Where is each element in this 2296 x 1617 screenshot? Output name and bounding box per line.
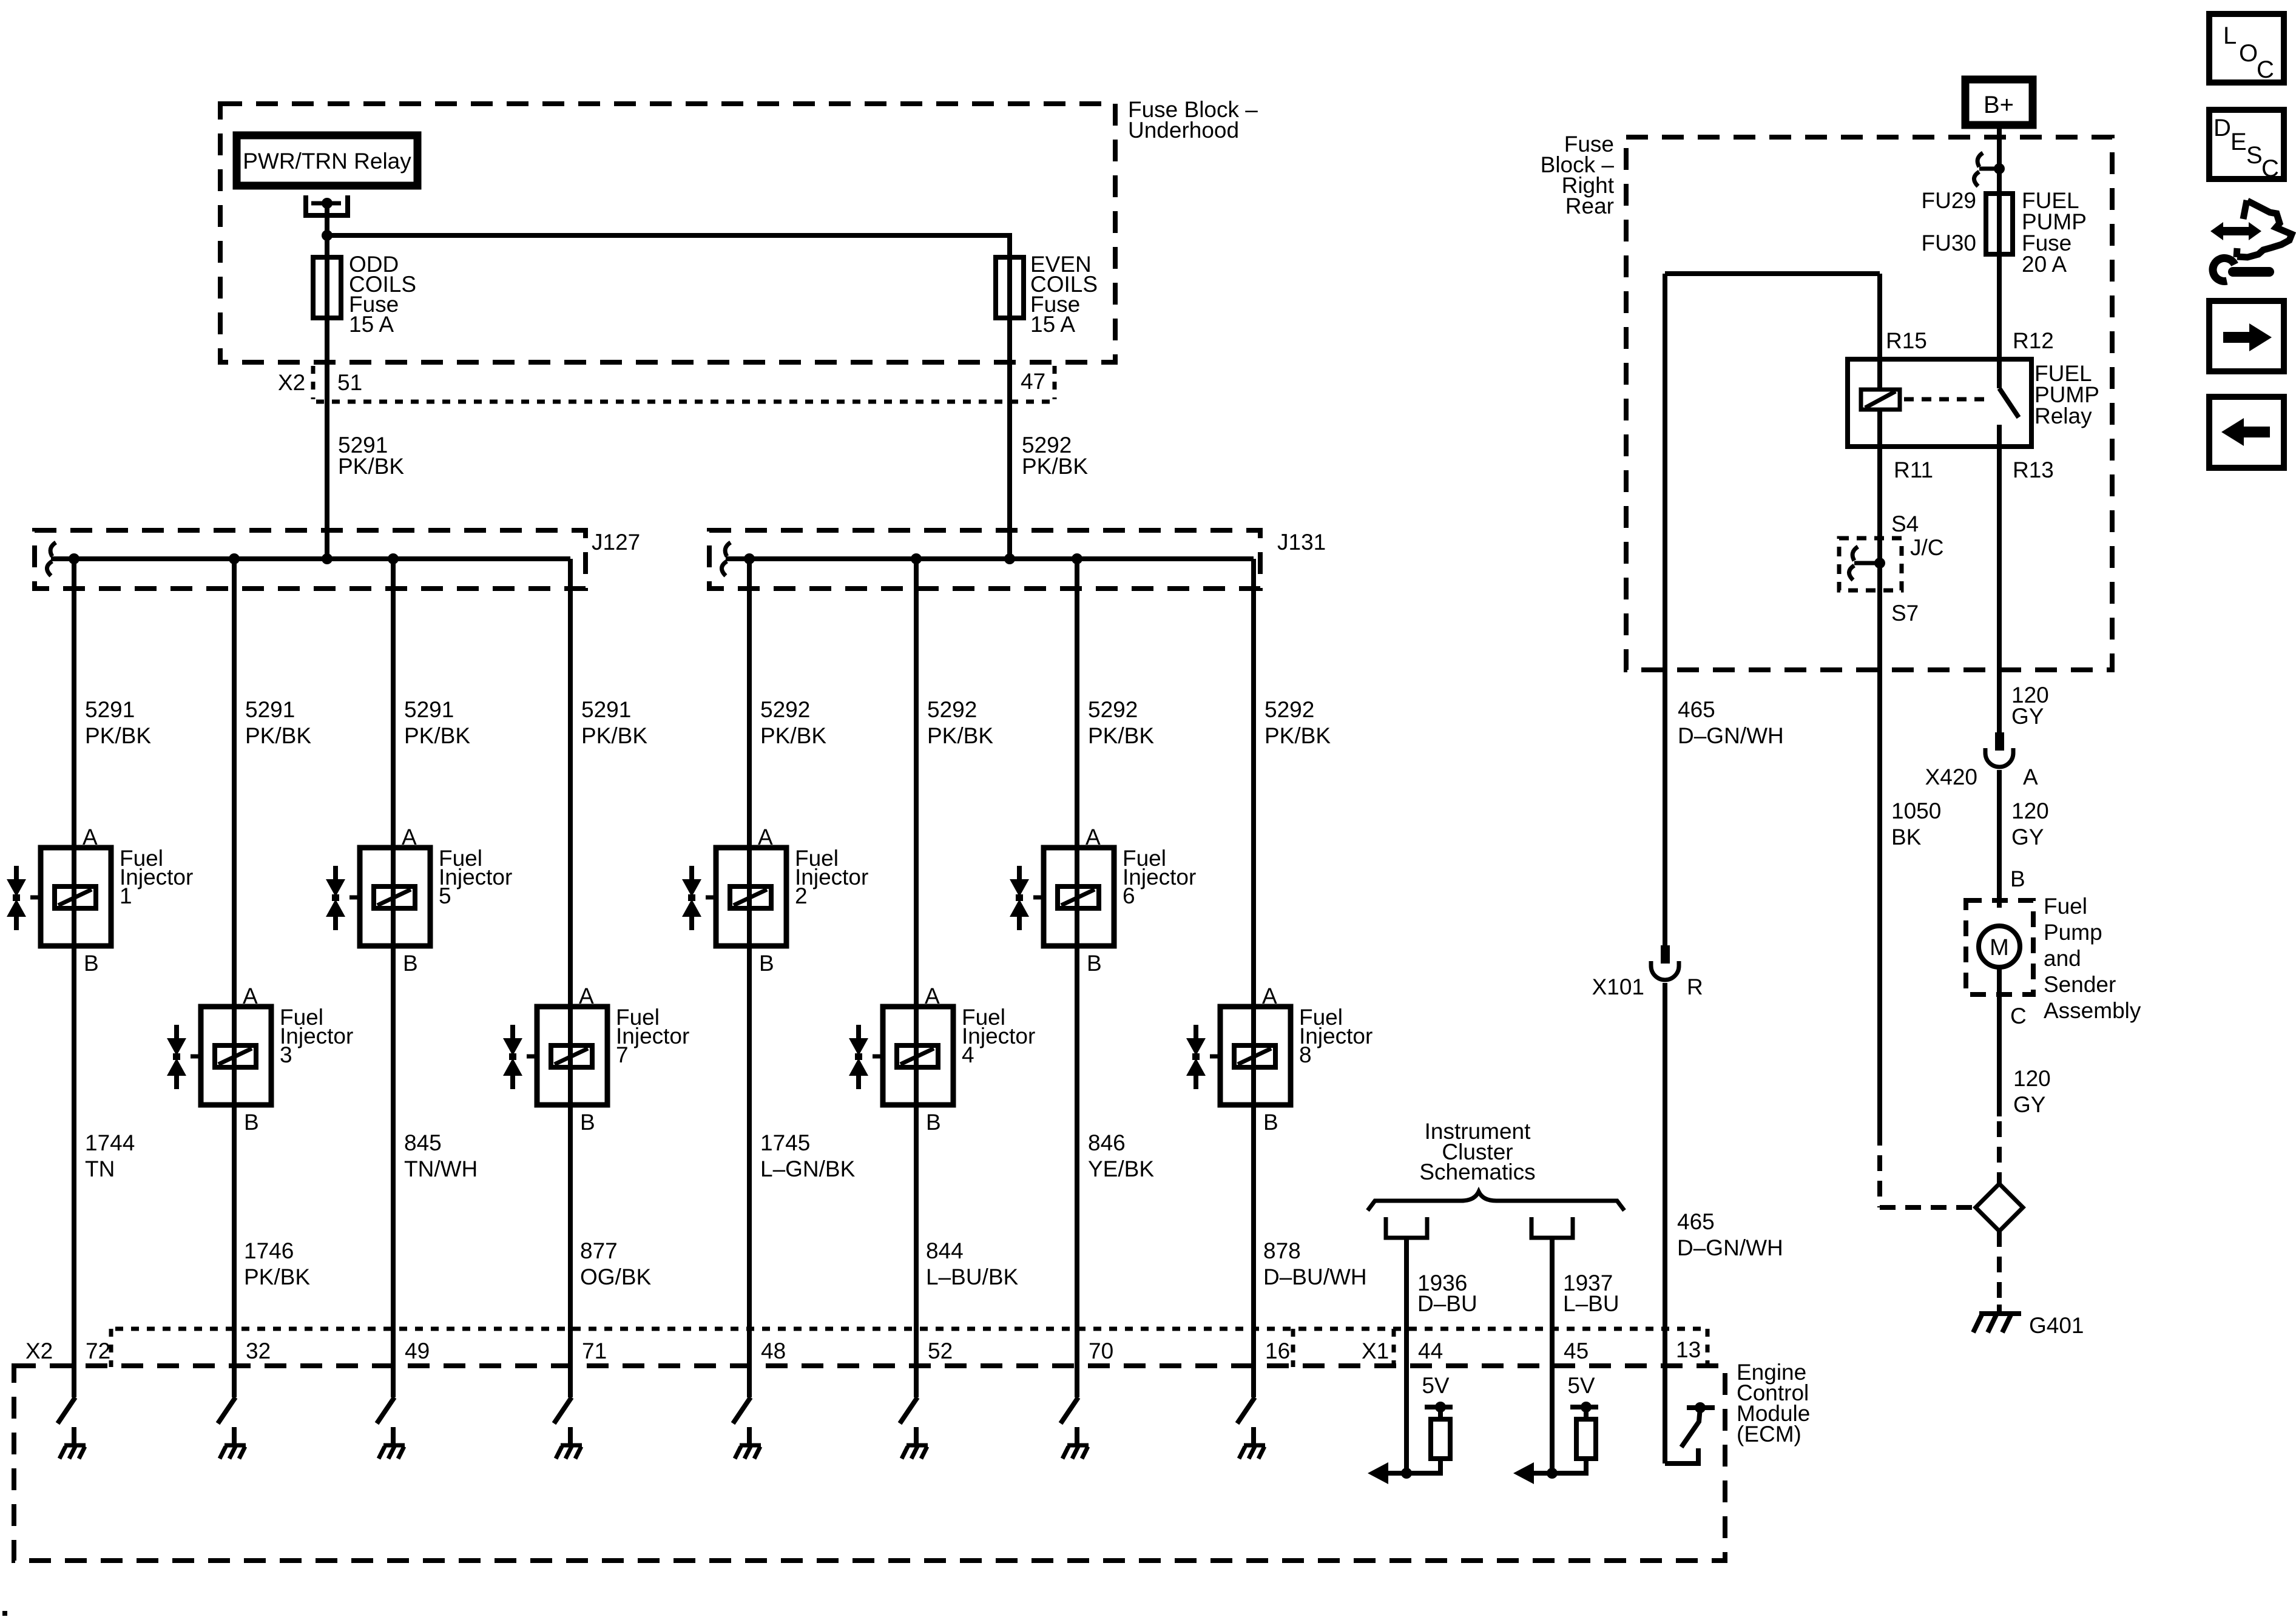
svg-text:(ECM): (ECM) (1737, 1422, 1801, 1447)
svg-text:J/C: J/C (1910, 535, 1944, 560)
svg-text:7: 7 (616, 1042, 629, 1067)
page corner dot (2, 1611, 7, 1616)
svg-text:GY: GY (2011, 825, 2044, 849)
svg-text:X2: X2 (278, 370, 305, 395)
fuel injector 6 (1010, 848, 1114, 946)
driver switch and ground at pin x=940 (554, 1397, 572, 1423)
driver switch and ground at pin x=1235 (733, 1397, 751, 1423)
svg-text:B: B (1087, 951, 1102, 976)
svg-text:B: B (759, 951, 774, 976)
svg-text:O: O (2239, 40, 2258, 67)
fuse block right rear (dashed box) (1626, 137, 2112, 670)
wire down to even coils fuse (1007, 233, 1012, 257)
svg-text:and: and (2044, 946, 2081, 971)
svg-text:A: A (925, 984, 940, 1008)
dashed wire to ground (1997, 1231, 2002, 1305)
fuse block underhood (dashed box) (220, 104, 1115, 362)
FUEL PUMP relay box (1848, 359, 2031, 447)
svg-text:D: D (2213, 115, 2231, 141)
fuse ODD COILS 15A (313, 257, 341, 318)
svg-text:PK/BK: PK/BK (581, 723, 647, 748)
svg-text:5V: 5V (1567, 1373, 1595, 1398)
junction node dot (322, 230, 333, 241)
svg-text:J131: J131 (1277, 530, 1326, 555)
svg-text:D–GN/WH: D–GN/WH (1677, 1235, 1783, 1260)
svg-text:5291: 5291 (85, 697, 135, 722)
svg-text:32: 32 (246, 1338, 271, 1363)
svg-text:R11: R11 (1894, 457, 1933, 482)
svg-text:S7: S7 (1891, 601, 1919, 626)
svg-text:L–GN/BK: L–GN/BK (760, 1156, 856, 1181)
svg-text:C: C (2261, 155, 2279, 182)
svg-text:R: R (1687, 974, 1703, 999)
svg-text:PK/BK: PK/BK (404, 723, 470, 748)
svg-text:20 A: 20 A (2022, 252, 2067, 277)
svg-text:A: A (402, 825, 417, 849)
svg-text:C: C (2257, 56, 2274, 83)
svg-text:8: 8 (1299, 1042, 1312, 1067)
svg-text:71: 71 (582, 1338, 607, 1363)
svg-text:OG/BK: OG/BK (580, 1264, 652, 1289)
svg-text:2: 2 (795, 883, 808, 908)
fuel injector 8 (1186, 1007, 1291, 1105)
B+ terminal box (1965, 79, 2033, 125)
svg-text:5292: 5292 (1264, 697, 1314, 722)
svg-text:49: 49 (405, 1338, 430, 1363)
driver switch and ground at pin x=648 (377, 1397, 394, 1423)
wire coil to R11 (1877, 410, 1882, 1130)
svg-text:A: A (579, 984, 594, 1008)
svg-text:PK/BK: PK/BK (1088, 723, 1154, 748)
svg-text:15 A: 15 A (1030, 312, 1075, 337)
svg-text:15 A: 15 A (349, 312, 394, 337)
svg-text:B: B (2010, 866, 2025, 891)
svg-text:GY: GY (2011, 704, 2044, 729)
svg-text:A: A (1262, 984, 1277, 1008)
icon arrow left box (2209, 397, 2284, 468)
svg-text:Schematics: Schematics (1419, 1160, 1535, 1184)
svg-text:Assembly: Assembly (2044, 998, 2141, 1023)
svg-text:1050: 1050 (1891, 798, 1941, 823)
svg-text:S4: S4 (1891, 511, 1919, 536)
svg-text:G401: G401 (2029, 1313, 2084, 1338)
svg-text:J127: J127 (592, 530, 640, 555)
wire 529x PK/BK column at x=122 (72, 559, 76, 1397)
svg-text:PK/BK: PK/BK (1264, 723, 1331, 748)
ground G401 (1997, 1305, 2002, 1313)
wire 1937 L–BU (1550, 1238, 1555, 1473)
svg-text:5291: 5291 (404, 697, 454, 722)
relay coil (1861, 390, 1900, 410)
svg-text:Fuel: Fuel (2044, 894, 2087, 919)
svg-text:A: A (83, 825, 98, 849)
svg-text:5291: 5291 (581, 697, 631, 722)
wire 529x PK/BK column at x=2066 (1251, 559, 1256, 1397)
wire 120 GY (X420 to pump B) (1997, 770, 2002, 908)
svg-text:Relay: Relay (2034, 403, 2092, 428)
wire inside pump box (1997, 967, 2002, 994)
splice diamond (1976, 1184, 2023, 1231)
svg-text:B: B (84, 951, 99, 976)
fuel pump and sender assembly (dashed box) (1966, 900, 2033, 994)
svg-text:X420: X420 (1925, 765, 1977, 789)
node dots J127 (69, 553, 79, 564)
svg-text:X2: X2 (25, 1338, 53, 1363)
svg-text:S: S (2246, 142, 2263, 169)
icon LOC box (2209, 14, 2284, 83)
svg-text:Rear: Rear (1565, 194, 1614, 218)
wire R15 down into relay (1877, 274, 1882, 390)
svg-text:PK/BK: PK/BK (85, 723, 151, 748)
svg-text:B+: B+ (1984, 92, 2014, 118)
driver switch and ground at pin x=1775 (1061, 1397, 1078, 1423)
wire 529x PK/BK column at x=1235 (747, 559, 752, 1397)
svg-text:L: L (2223, 22, 2237, 49)
junction block J127 (35, 530, 586, 589)
svg-text:R12: R12 (2013, 328, 2054, 353)
wire 1936 D–BU (1404, 1238, 1409, 1473)
svg-text:1746: 1746 (244, 1238, 294, 1263)
svg-text:Underhood: Underhood (1128, 118, 1239, 143)
svg-text:D–GN/WH: D–GN/WH (1678, 723, 1784, 748)
5V pullup at pin x=2318 (1425, 1405, 1453, 1409)
svg-text:L–BU: L–BU (1563, 1291, 1619, 1316)
wire 120 GY below pump (1997, 994, 2002, 1116)
svg-text:A: A (1086, 825, 1101, 849)
svg-text:44: 44 (1418, 1338, 1443, 1363)
wire 465 horizontal from relay R15 (1665, 271, 1880, 276)
driver switch and ground at pin x=2066 (1237, 1397, 1255, 1423)
svg-text:48: 48 (761, 1338, 786, 1363)
svg-text:120: 120 (2011, 798, 2049, 823)
svg-text:52: 52 (928, 1338, 953, 1363)
svg-text:3: 3 (280, 1042, 292, 1067)
J131 bus wire (726, 556, 1254, 561)
wire 5292 PK/BK (fuse to J131) (1007, 318, 1012, 559)
svg-text:5292: 5292 (760, 697, 810, 722)
svg-text:B: B (926, 1110, 941, 1135)
svg-text:16: 16 (1265, 1338, 1290, 1363)
splice curl in J/C (1849, 547, 1858, 580)
svg-text:877: 877 (580, 1238, 618, 1263)
svg-text:A: A (2023, 765, 2038, 789)
svg-text:FU29: FU29 (1922, 188, 1976, 213)
fuel injector 7 (503, 1007, 607, 1105)
PWR/TRN Relay label box (237, 135, 417, 186)
svg-text:M: M (1990, 935, 2009, 960)
svg-text:D–BU: D–BU (1417, 1291, 1477, 1316)
svg-text:L–BU/BK: L–BU/BK (926, 1264, 1019, 1289)
svg-text:R15: R15 (1886, 328, 1927, 353)
connector band X2/X1 at ECM (115, 1327, 1707, 1331)
wire 5291 PK/BK (fuse to J127) (325, 318, 329, 559)
icon DESC box (2209, 110, 2284, 179)
svg-text:5V: 5V (1422, 1373, 1450, 1398)
svg-text:465: 465 (1677, 1209, 1715, 1234)
svg-text:465: 465 (1678, 697, 1715, 722)
svg-text:70: 70 (1089, 1338, 1113, 1363)
junction block J131 (709, 530, 1260, 589)
wire 465 D-GN/WH to ECM pin 13 (1663, 983, 1667, 1463)
svg-text:PK/BK: PK/BK (338, 454, 404, 479)
fuel injector 4 (849, 1007, 953, 1105)
svg-text:YE/BK: YE/BK (1088, 1156, 1154, 1181)
wire B+ down (1997, 125, 2002, 194)
connector X420 (1995, 732, 2004, 751)
splice curl J131 (721, 542, 731, 576)
driver switch and ground at pin x=122 (58, 1397, 75, 1423)
svg-text:PK/BK: PK/BK (760, 723, 826, 748)
svg-text:Pump: Pump (2044, 920, 2102, 945)
svg-text:PK/BK: PK/BK (244, 1264, 310, 1289)
5V pullup at pin x=2558 (1570, 1405, 1598, 1409)
dashed wire from ECM S7 path (1877, 1130, 1882, 1207)
svg-text:47: 47 (1021, 369, 1045, 394)
svg-text:5292: 5292 (1088, 697, 1138, 722)
fuse FUEL PUMP 20A (FU29/FU30) (1986, 194, 2013, 254)
pin 13 driver switch (1687, 1405, 1715, 1410)
svg-text:A: A (758, 825, 773, 849)
svg-text:X1: X1 (1362, 1338, 1389, 1363)
wire relay to junction (325, 203, 329, 257)
node dots J131 (744, 553, 755, 564)
wire 529x PK/BK column at x=1510 (914, 559, 919, 1397)
J127 bus wire (51, 556, 570, 561)
svg-text:FU30: FU30 (1922, 231, 1976, 255)
engine control module ECM (dashed box) (14, 1366, 1725, 1561)
splice curl at B+ feed (1974, 153, 1983, 186)
svg-text:PK/BK: PK/BK (245, 723, 311, 748)
svg-text:GY: GY (2013, 1092, 2045, 1117)
wire R13 down (1997, 425, 2002, 732)
icon wrench and arrows (2210, 200, 2292, 281)
connector X101 (1661, 945, 1670, 964)
svg-text:B: B (1263, 1110, 1278, 1135)
relay contact symbol (306, 195, 348, 215)
svg-text:C: C (2010, 1004, 2027, 1028)
icon arrow right box (2209, 301, 2284, 371)
svg-text:845: 845 (404, 1130, 442, 1155)
fuel injector 1 (7, 848, 111, 946)
svg-text:PK/BK: PK/BK (1022, 454, 1088, 479)
wire 529x PK/BK column at x=386 (232, 559, 237, 1397)
svg-text:BK: BK (1891, 825, 1922, 849)
wire 529x PK/BK column at x=648 (391, 559, 396, 1397)
instrument cluster connector above pin x=2318 (1386, 1217, 1427, 1238)
svg-text:4: 4 (962, 1042, 974, 1067)
svg-text:5: 5 (439, 883, 451, 908)
instrument cluster connector above pin x=2558 (1531, 1217, 1573, 1238)
svg-text:1745: 1745 (760, 1130, 810, 1155)
fuel pump motor M (1979, 926, 2020, 967)
svg-text:A: A (243, 984, 258, 1008)
wire 529x PK/BK column at x=1775 (1075, 559, 1079, 1397)
svg-text:5292: 5292 (927, 697, 977, 722)
svg-text:1744: 1744 (85, 1130, 135, 1155)
svg-text:B: B (580, 1110, 595, 1135)
svg-text:72: 72 (86, 1338, 110, 1363)
arrow to instrument cluster (1531, 1471, 1552, 1476)
svg-text:R13: R13 (2013, 457, 2054, 482)
relay link dashed (1904, 397, 1992, 402)
brace (1368, 1192, 1624, 1210)
svg-text:TN: TN (85, 1156, 115, 1181)
driver switch and ground at pin x=1510 (900, 1397, 917, 1423)
svg-text:5291: 5291 (245, 697, 295, 722)
wire 465 D-GN/WH vertical (1663, 274, 1667, 945)
connector X2 band (top) (316, 400, 1056, 404)
arrow to instrument cluster (1386, 1471, 1406, 1476)
svg-text:846: 846 (1088, 1130, 1126, 1155)
wire 529x PK/BK column at x=940 (568, 559, 573, 1397)
fuel injector 3 (167, 1007, 271, 1105)
splice curl J127 (47, 542, 56, 576)
svg-text:51: 51 (337, 370, 362, 395)
svg-text:45: 45 (1564, 1338, 1589, 1363)
svg-text:6: 6 (1123, 883, 1135, 908)
svg-text:878: 878 (1263, 1238, 1301, 1263)
svg-text:120: 120 (2013, 1066, 2051, 1091)
svg-text:TN/WH: TN/WH (404, 1156, 478, 1181)
svg-text:D–BU/WH: D–BU/WH (1263, 1264, 1367, 1289)
horizontal wire to even coils fuse (327, 233, 1010, 238)
svg-text:Sender: Sender (2044, 972, 2116, 997)
svg-text:B: B (244, 1110, 259, 1135)
svg-text:PWR/TRN Relay: PWR/TRN Relay (243, 149, 411, 174)
fuel injector 5 (326, 848, 430, 946)
svg-text:13: 13 (1676, 1337, 1701, 1362)
svg-text:PK/BK: PK/BK (927, 723, 993, 748)
driver switch and ground at pin x=386 (218, 1397, 235, 1423)
svg-text:1: 1 (120, 883, 132, 908)
relay switch blade (1999, 388, 2019, 417)
svg-text:B: B (403, 951, 418, 976)
fuel injector 2 (682, 848, 786, 946)
svg-text:E: E (2230, 129, 2247, 155)
fuse EVEN COILS 15A (996, 257, 1024, 318)
svg-text:X101: X101 (1592, 974, 1644, 999)
wire fuse to relay R12 (1997, 254, 2002, 388)
svg-text:844: 844 (926, 1238, 964, 1263)
